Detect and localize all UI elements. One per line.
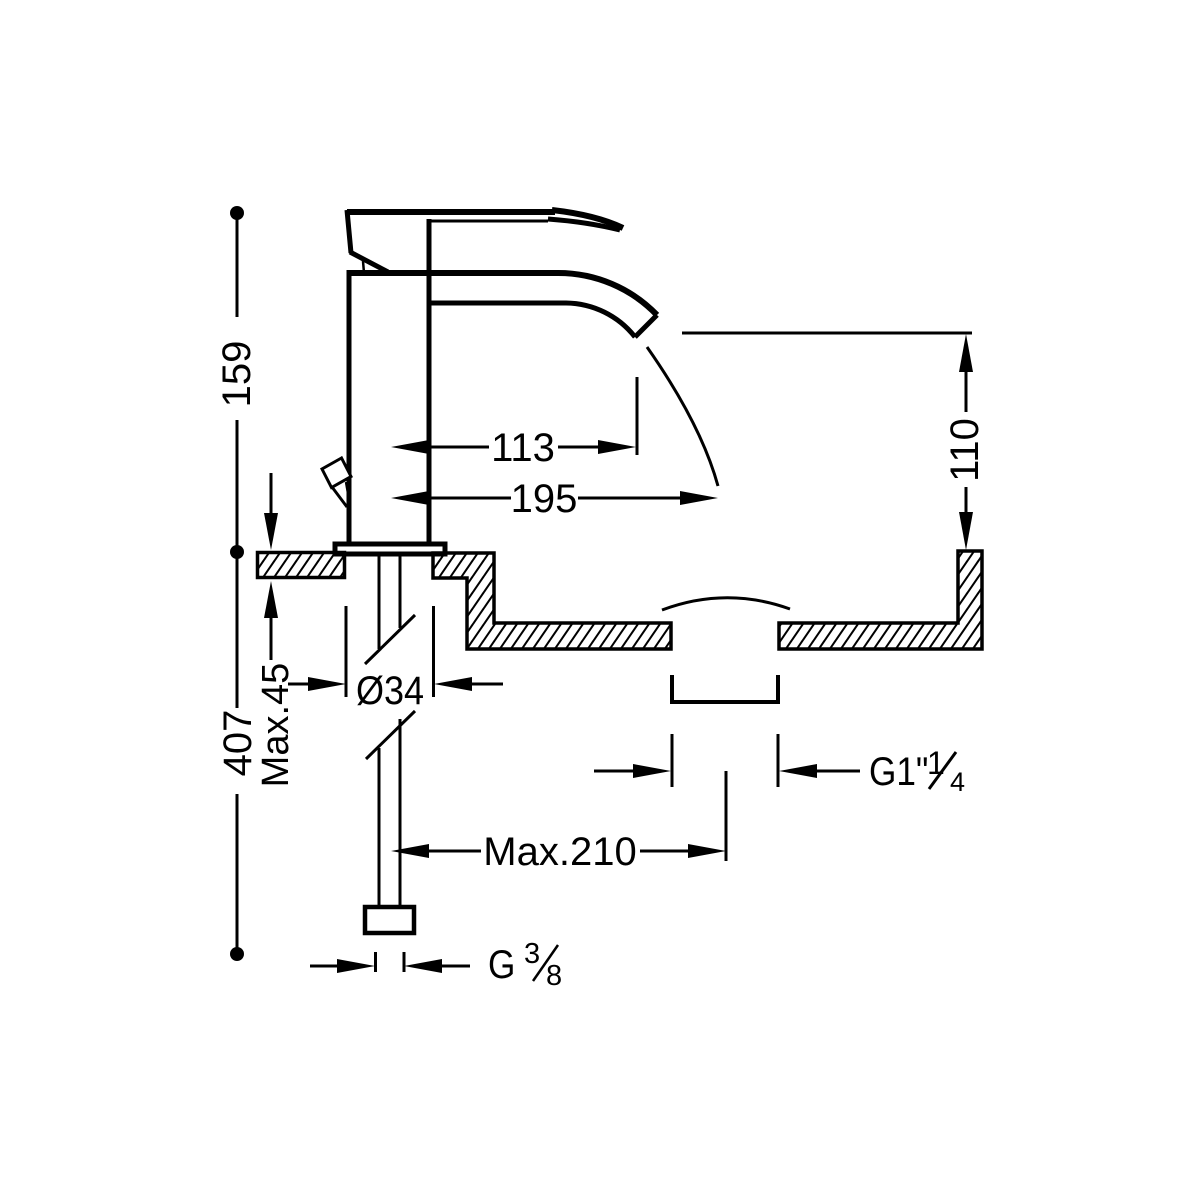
- dot middle: [230, 545, 244, 559]
- supply pipe upper right edge: [399, 556, 402, 628]
- dim G3/8 right extension line: [403, 952, 406, 972]
- dim 110 extension line: [682, 332, 972, 335]
- left dimension line segment lower: [236, 794, 239, 954]
- temperature limiter square: [322, 458, 351, 488]
- body top and spout outer curve: [349, 273, 657, 315]
- faucet handle top: [347, 209, 555, 215]
- countertop right + basin left step: [433, 553, 671, 649]
- handle left edge: [347, 210, 351, 253]
- drain centerline: [725, 771, 728, 861]
- dim G1 1/4 right extension line: [777, 734, 780, 787]
- dim G3/8 left extension line: [374, 952, 377, 972]
- dim G3/8 right arrow: [404, 959, 442, 973]
- body right edge: [427, 219, 432, 543]
- drain body outline: [672, 675, 778, 702]
- pipe break slash 1: [365, 615, 415, 664]
- dim G1 1/4 left arrow: [594, 770, 634, 773]
- handle chin diagonal: [350, 252, 388, 272]
- Max.45 up arrow: [264, 581, 278, 618]
- svg-text:1: 1: [927, 745, 945, 781]
- dim Max.210 right arrow: [640, 850, 689, 853]
- dim 113 right arrow: [558, 446, 599, 449]
- Max.45 down arrow: [270, 473, 273, 515]
- dim 113 extension line: [636, 377, 639, 455]
- svg-text:4: 4: [950, 767, 965, 797]
- dim O34 left arrow: [288, 683, 310, 686]
- dot bottom: [230, 947, 244, 961]
- supply pipe lower right edge: [399, 719, 402, 907]
- dim 110 bottom arrow: [965, 487, 968, 512]
- supply pipe upper left edge: [378, 556, 381, 649]
- pipe end fitting: [365, 907, 414, 933]
- limiter wedge line 2: [346, 482, 349, 499]
- dim G1 1/4 left extension line: [671, 734, 674, 787]
- svg-text:159: 159: [215, 341, 259, 408]
- dim O34 right arrow: [434, 677, 472, 691]
- dim G3/8 left arrow: [310, 965, 338, 968]
- dim O34 left extension line: [345, 606, 348, 697]
- dim O34 right extension line: [432, 606, 435, 697]
- svg-text:407: 407: [216, 710, 260, 777]
- svg-text:Max.210: Max.210: [483, 830, 636, 874]
- handle pivot tick: [363, 261, 364, 273]
- left dimension vertical: dot top: [230, 206, 244, 220]
- water stream arc: [647, 347, 718, 486]
- svg-text:G1": G1": [869, 749, 928, 794]
- base flange: [335, 544, 445, 554]
- limiter wedge line 1: [332, 487, 347, 507]
- body left edge: [347, 270, 352, 543]
- dim G1 1/4 right arrow: [779, 764, 817, 778]
- svg-text:Ø34: Ø34: [356, 669, 424, 713]
- svg-text:8: 8: [546, 960, 562, 992]
- dim 195 left arrow: [391, 491, 429, 505]
- svg-text:3: 3: [524, 938, 540, 970]
- left dimension line segment below middle dot: [236, 552, 239, 708]
- handle inner line: [429, 220, 548, 223]
- dim 110 top arrow: [959, 334, 973, 372]
- svg-text:113: 113: [491, 426, 555, 470]
- dim 195 right arrow: [578, 497, 681, 500]
- spout tip cut: [635, 315, 657, 337]
- handle tail curve bottom: [548, 219, 620, 230]
- handle tail curve top: [552, 210, 623, 228]
- pipe break slash 2: [366, 711, 415, 759]
- basin floor right + right wall: [779, 551, 982, 649]
- svg-text:G: G: [488, 942, 515, 987]
- countertop left slab: [258, 553, 345, 578]
- dim Max.210 left arrow: [391, 844, 429, 858]
- svg-text:195: 195: [511, 477, 578, 521]
- spout underside and inner curve: [429, 303, 635, 337]
- drain dome arc: [662, 598, 790, 610]
- left dimension line segment upper: [236, 213, 239, 317]
- dim 113 left arrow: [391, 440, 429, 454]
- svg-text:Max.45: Max.45: [255, 663, 297, 788]
- left dimension line segment below 159: [236, 420, 239, 552]
- supply pipe lower left edge: [378, 748, 381, 907]
- svg-text:110: 110: [943, 418, 987, 482]
